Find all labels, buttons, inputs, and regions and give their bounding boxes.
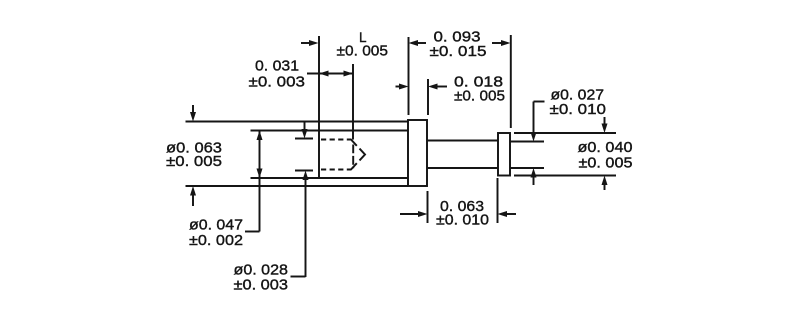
0.063 tail right extension line — [497, 178, 499, 223]
tail bottom line — [510, 167, 544, 169]
0.031 left arrowhead — [319, 71, 329, 77]
bore inner top line — [251, 130, 409, 132]
dia 0.047 top arrowhead — [257, 131, 263, 141]
dia 0.028 leader elbow — [291, 276, 306, 278]
0.063 tail left extension line — [427, 191, 429, 223]
flange right face extension line up — [427, 79, 429, 115]
dia 0.028 top arrowhead — [302, 129, 308, 139]
dia 0.047 leader elbow — [245, 231, 260, 233]
svg-text:±0. 015: ±0. 015 — [430, 43, 487, 60]
dia 0.063 bottom arrowhead — [190, 186, 196, 196]
dia 0.028 bottom tick — [295, 170, 313, 172]
collar rectangle — [498, 133, 510, 176]
svg-text:0. 031: 0. 031 — [255, 58, 299, 75]
svg-text:±0. 005: ±0. 005 — [166, 153, 222, 170]
svg-text:±0. 005: ±0. 005 — [337, 43, 389, 60]
dia 0.028 top arrow stem — [304, 122, 306, 133]
svg-text:±0. 005: ±0. 005 — [454, 88, 505, 105]
hidden drill cone upper dash — [351, 140, 357, 146]
bore bottom face / L and 0.031 left extension line — [318, 36, 320, 178]
svg-text:±0. 005: ±0. 005 — [579, 155, 633, 172]
dia 0.027 bottom arrow stem — [533, 175, 535, 185]
flange left face extension line up — [408, 37, 410, 115]
dia 0.063 top arrow stem — [192, 105, 194, 115]
shaft top line — [427, 140, 498, 142]
0.093 right arrowhead — [501, 40, 511, 46]
dia 0.040 bottom extension line — [514, 175, 616, 177]
0.031 right arrowhead — [344, 71, 354, 77]
shaft bottom line — [427, 167, 498, 169]
dia 0.027 top arrowhead — [531, 132, 537, 142]
svg-text:±0. 002: ±0. 002 — [189, 232, 243, 249]
hidden drill hole top (dashed) — [321, 139, 352, 141]
dia 0.040 bottom arrowhead — [602, 176, 608, 186]
L dim left arrow stem — [301, 42, 311, 44]
bore inner bottom line — [251, 177, 409, 179]
L right / 0.093 left arrowhead — [409, 40, 419, 46]
0.063 tail left arrowhead — [418, 211, 428, 217]
L dim left arrowhead — [309, 40, 319, 46]
svg-text:ø0. 047: ø0. 047 — [189, 217, 243, 234]
body outer bottom line — [186, 185, 409, 187]
dia 0.063 bottom arrow stem — [192, 192, 194, 206]
svg-text:ø0. 040: ø0. 040 — [578, 139, 633, 156]
flange rectangle — [408, 120, 427, 186]
0.031 extension through cone (dashed) — [352, 145, 354, 169]
tail top line — [510, 141, 544, 143]
hidden drill cone tip chevron — [360, 149, 366, 161]
body outer top line — [186, 121, 409, 123]
dia 0.063 top arrowhead — [190, 112, 196, 122]
svg-text:±0. 003: ±0. 003 — [234, 277, 289, 294]
dia 0.027 leader horizontal — [534, 101, 545, 103]
0.093 right arrow stem — [492, 42, 502, 44]
0.018 right arrowhead — [428, 84, 438, 90]
svg-text:±0. 010: ±0. 010 — [436, 212, 489, 229]
0.031 dim line — [307, 73, 353, 75]
dia 0.040 top arrow stem — [604, 117, 606, 126]
0.093 right extension line — [510, 35, 512, 128]
hidden drill cone lower dash — [351, 163, 357, 169]
0.031 right extension line — [352, 64, 354, 140]
0.018 dim left arrow stem — [396, 86, 403, 88]
dia 0.047 bottom arrowhead — [257, 169, 263, 179]
dia 0.028 leader vertical — [305, 177, 307, 277]
dia 0.040 bottom arrow stem — [604, 182, 606, 190]
dia 0.027 top arrow stem — [533, 102, 535, 135]
dia 0.040 top extension line — [514, 132, 616, 134]
dia 0.047 dim line with leader — [259, 131, 261, 232]
0.018 left arrowhead — [399, 84, 409, 90]
0.018 dim right arrow stem — [435, 86, 448, 88]
hidden drill hole bottom (dashed) — [321, 169, 352, 171]
0.063 tail left arrow stem — [400, 213, 420, 215]
dia 0.028 bottom arrowhead — [303, 171, 309, 181]
dia 0.027 bottom arrowhead — [531, 168, 537, 178]
svg-text:±0. 003: ±0. 003 — [249, 74, 306, 91]
dia 0.040 top arrowhead — [602, 124, 608, 134]
0.063 tail right arrowhead — [498, 211, 508, 217]
L / 0.093 shared left arrow stem — [412, 42, 426, 44]
dia 0.028 top tick — [295, 138, 313, 140]
0.063 tail right arrow stem — [506, 213, 517, 215]
svg-text:±0. 010: ±0. 010 — [550, 101, 607, 118]
